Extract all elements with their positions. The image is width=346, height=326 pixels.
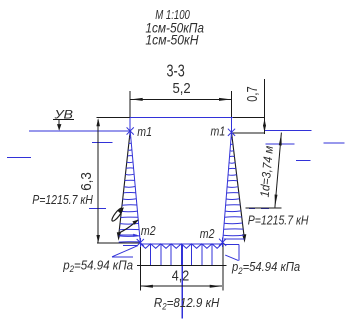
svg-text:m2: m2	[141, 223, 156, 238]
svg-text:5,2: 5,2	[173, 80, 191, 97]
svg-text:6,3: 6,3	[79, 172, 95, 191]
svg-text:m2: m2	[200, 226, 215, 241]
svg-text:m1: m1	[211, 123, 226, 138]
svg-text:Р=1215.7 кН: Р=1215.7 кН	[248, 212, 309, 227]
svg-text:3-3: 3-3	[167, 61, 185, 81]
svg-text:m1: m1	[137, 124, 152, 139]
svg-text:4,2: 4,2	[172, 269, 189, 285]
svg-text:0,7: 0,7	[245, 86, 261, 101]
svg-text:1см-50кН: 1см-50кН	[145, 33, 198, 48]
svg-text:Р=1215.7 кН: Р=1215.7 кН	[32, 192, 93, 207]
